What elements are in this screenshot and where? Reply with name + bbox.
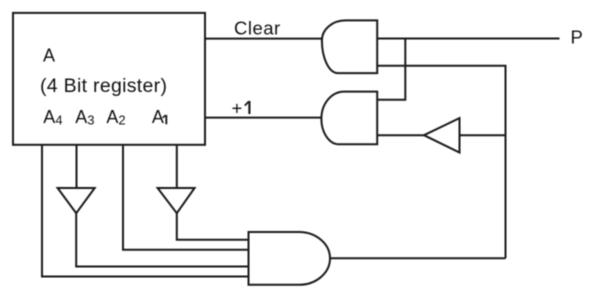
wire +1 — [205, 117, 322, 119]
register A box — [13, 13, 205, 145]
wire G3 output to V2 — [330, 257, 506, 259]
svg-text:Clear: Clear — [234, 18, 281, 39]
svg-text:A: A — [43, 45, 55, 65]
and-gate G1 (mirrored, clear logic) — [322, 20, 377, 73]
wire A1 upper — [176, 145, 178, 188]
wire Clear — [205, 38, 322, 40]
inverter triangle (points left) — [424, 118, 460, 152]
svg-text:+: + — [232, 97, 243, 118]
svg-text:(4 Bit register): (4 Bit register) — [40, 75, 167, 97]
and-gate G2 (mirrored, +1 logic) — [321, 92, 377, 145]
svg-text:A3: A3 — [75, 107, 94, 127]
wire inverter input from V2 — [460, 134, 506, 136]
wire V1 from P line to G2 — [377, 39, 405, 100]
wire A1 lower — [177, 213, 249, 240]
wire G2 lower input to inverter output — [377, 134, 424, 136]
wire G1 lower input — [377, 66, 505, 258]
buffer triangle T1 on A3 — [58, 188, 95, 213]
and-gate G3 (4-input) — [249, 232, 331, 285]
wire A4 — [42, 145, 249, 277]
buffer triangle T2 on A1 — [158, 188, 195, 213]
svg-text:A4: A4 — [43, 107, 62, 127]
wire A3 upper — [76, 145, 78, 188]
svg-text:P: P — [571, 27, 583, 48]
wire A2 — [123, 145, 249, 250]
wire A3 lower — [76, 213, 248, 266]
wire P line — [377, 38, 559, 40]
svg-text:A2: A2 — [106, 107, 125, 127]
